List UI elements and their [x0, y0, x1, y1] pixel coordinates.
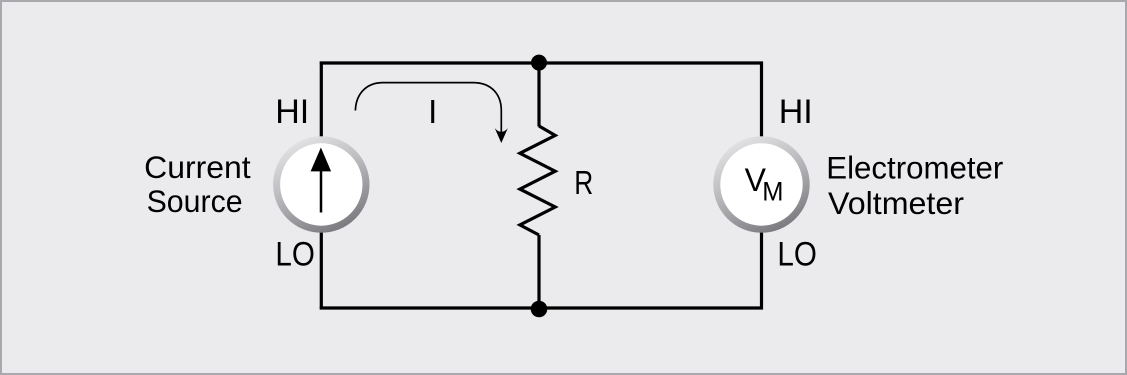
node junction bottom	[531, 301, 548, 318]
wire resistor top lead	[537, 63, 540, 127]
wire top (HI of source to HI of voltmeter)	[320, 61, 763, 64]
current direction arc arrow	[355, 83, 501, 133]
svg-text:M: M	[762, 177, 783, 207]
current source arrowhead	[311, 148, 332, 172]
current source arrow stem	[320, 170, 323, 213]
node junction top	[531, 55, 547, 71]
wire left (current source branch)	[320, 62, 323, 310]
current arrowhead	[495, 128, 508, 143]
svg-text:Electrometer: Electrometer	[826, 149, 1003, 185]
svg-text:HI: HI	[275, 93, 309, 131]
resistor R zigzag	[520, 126, 555, 235]
svg-text:LO: LO	[275, 235, 315, 273]
svg-text:I: I	[428, 93, 437, 130]
voltmeter circle ring	[717, 140, 806, 229]
svg-text:Voltmeter: Voltmeter	[828, 185, 964, 221]
wire bottom (LO of source to LO of voltmeter)	[320, 306, 763, 309]
svg-text:HI: HI	[779, 93, 813, 131]
svg-text:LO: LO	[777, 235, 817, 273]
wire resistor bottom lead	[537, 235, 540, 308]
svg-text:Current: Current	[144, 150, 251, 185]
svg-text:R: R	[574, 164, 593, 201]
wire right (voltmeter branch)	[760, 62, 763, 310]
svg-text:Source: Source	[147, 184, 243, 219]
current source circle ring	[277, 140, 366, 229]
